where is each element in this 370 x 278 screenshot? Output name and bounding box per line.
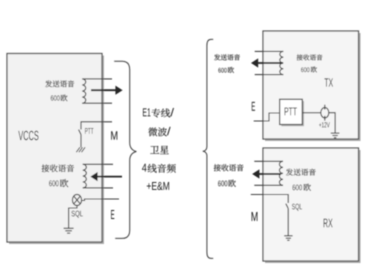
PTT keying block [280, 99, 304, 126]
label E (TX E-lead) [252, 102, 255, 111]
wire: send pair bottom [82, 102, 112, 104]
wire: lamp to ground [69, 206, 77, 229]
earth ground (RX) [284, 236, 292, 241]
wire: coil to ground [329, 113, 335, 133]
label 发送语音 600欧 (send voice 600 ohm) [45, 80, 74, 101]
wire: PTT to relay coil [302, 112, 321, 114]
label PTT [85, 128, 93, 134]
label M (RX M-lead) [252, 212, 258, 221]
wire: receive pair top [83, 163, 113, 165]
arrow: audio out of RX (pointing left) [252, 169, 280, 178]
wire: RX pair top [254, 160, 283, 162]
earth ground (TX) [331, 133, 340, 138]
brace: radio side interface (right) [203, 39, 213, 258]
label M (E&M signalling M-lead) [111, 131, 117, 139]
wire: M lead [251, 195, 288, 204]
wire: E lead [82, 199, 119, 201]
wire: RX pair bottom [254, 184, 283, 186]
switch PTT (press-to-talk contact) [79, 130, 81, 148]
transformer winding (RX output, 600 ohm) [254, 161, 283, 185]
wire: send pair top [82, 78, 112, 80]
label 发送语音 600欧 (send voice, line side of TX) [214, 54, 240, 73]
switch SQL (squelch contact) [286, 204, 288, 236]
transformer winding (TX input, 600 ohm) [255, 51, 284, 74]
wire: TX pair top [255, 50, 284, 52]
wire: receive pair bottom [83, 187, 113, 189]
label SQL [292, 204, 302, 211]
RX radio receiver box [263, 148, 361, 263]
transformer winding (VCCS send, 600 ohm) [82, 79, 112, 103]
lamp SQL (squelch indicator) [72, 194, 81, 205]
wire: M lead [81, 122, 112, 130]
TX radio transmitter box [263, 31, 361, 141]
label VCCS [18, 131, 38, 140]
label 接收语音 600欧 (receive voice, TX internal) [297, 54, 323, 72]
label 发送语音 600欧 (send voice, RX internal) [286, 169, 316, 191]
earth ground (SQL) [64, 228, 74, 233]
brace: 4-wire + E&M interface (left) [114, 61, 136, 238]
wire: TX pair bottom [255, 74, 284, 76]
wire: E lead into PTT [254, 113, 280, 121]
VCCS unit box [7, 54, 104, 245]
arrow: audio into TX (pointing left) [251, 58, 283, 67]
label SQL [71, 211, 82, 218]
label +12V [319, 122, 330, 127]
chassis ground (PTT) [76, 147, 85, 152]
relay coil +12V [321, 105, 329, 121]
arrow: send direction (VCCS to line) [91, 86, 123, 95]
label E1 transmission medium (E1专线/微波/卫星 4线音频+E&M) [142, 108, 176, 190]
arrow: receive direction (line to VCCS) [90, 172, 122, 181]
label TX [324, 78, 333, 86]
label 接收语音 600欧 (receive voice, line side of RX) [214, 164, 244, 187]
label 接收语音 600欧 (receive voice 600 ohm) [42, 164, 75, 187]
label E (E&M signalling E-lead) [111, 210, 114, 219]
label RX [324, 219, 333, 228]
transformer winding (VCCS receive, 600 ohm) [83, 164, 113, 188]
